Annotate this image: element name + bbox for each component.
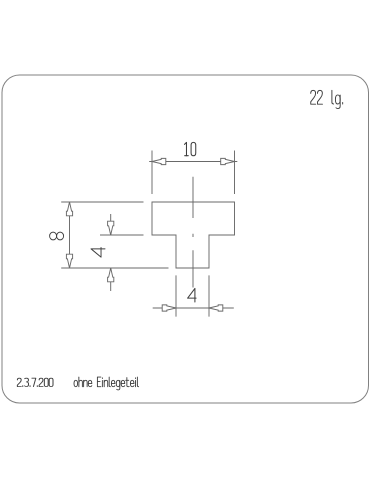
T-profile outline	[152, 202, 235, 268]
dim 4 bottom label	[188, 288, 196, 302]
dim 4 bottom extension line left	[175, 275, 177, 316]
dim 8 arrow top	[66, 202, 72, 216]
dim 10 arrow left	[152, 158, 166, 164]
centerline	[192, 177, 194, 288]
dim 8 extension line bottom	[61, 267, 168, 269]
dim 4 left extension line (step)	[100, 234, 144, 236]
dim 4 left arrow top	[108, 221, 114, 235]
dim 8 arrow bottom	[66, 254, 72, 268]
dim 10 arrow right	[221, 158, 235, 164]
dim 8 line	[69, 202, 71, 268]
dim 8 label	[50, 232, 57, 240]
dim 10 extension line left	[151, 151, 153, 195]
dim 4 left line bottom	[110, 268, 112, 291]
part number 2.3.7.200	[17, 378, 21, 386]
dim 4 bottom extension line right	[208, 275, 210, 316]
dim 4 bottom line	[153, 307, 234, 309]
dim 4 left label	[91, 248, 105, 258]
dim 4 bottom arrow right	[209, 305, 223, 311]
dim 4 left line top	[110, 214, 112, 235]
dim 8 extension line top	[61, 201, 143, 203]
description ohne Einlegeteil	[74, 380, 78, 386]
dim 10 label	[184, 142, 186, 155]
dim 10 line	[149, 161, 237, 163]
dim 10 extension line right	[234, 151, 236, 195]
dim 4 left arrow bottom	[108, 268, 114, 282]
note 22 lg.	[311, 90, 316, 104]
dim 4 bottom arrow left	[162, 305, 176, 311]
border frame	[2, 75, 369, 403]
